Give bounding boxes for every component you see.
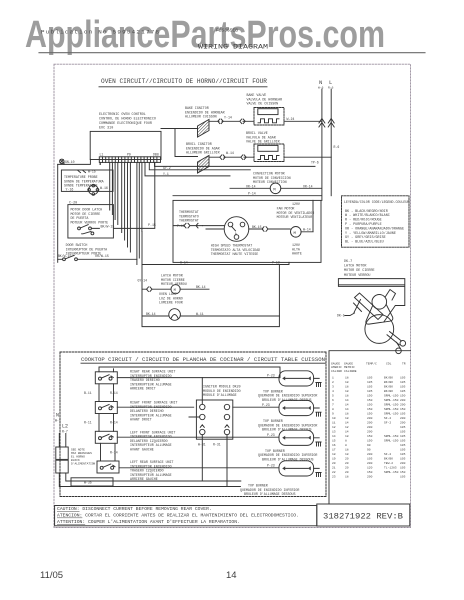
svg-text:OR-14: OR-14 — [246, 184, 256, 188]
latch motor aux labels — [161, 274, 187, 287]
svg-text:20: 20 — [332, 462, 336, 465]
svg-text:M: M — [294, 232, 297, 236]
svg-text:105: 105 — [367, 376, 373, 379]
wire label BK/W-15 door — [58, 254, 72, 258]
svg-text:P-23: P-23 — [267, 433, 275, 437]
wire label P-23 RF — [262, 403, 270, 407]
svg-text:150: 150 — [367, 399, 373, 402]
svg-text:105: 105 — [400, 435, 406, 438]
svg-text:CAUTION: DISCONNECT CURRENT BE: CAUTION: DISCONNECT CURRENT BEFORE REMOV… — [57, 506, 212, 512]
probe connector plug — [88, 184, 99, 195]
svg-text:ATENCION: CORTAR EL CORRIENTE: ATENCION: CORTAR EL CORRIENTE ANTES DE R… — [57, 513, 299, 519]
svg-text:BRULEUR D'ALLUMAGE DESSOUS: BRULEUR D'ALLUMAGE DESSOUS — [244, 492, 295, 496]
connector thermostat — [173, 223, 203, 228]
svg-text:COL: COL — [386, 363, 392, 366]
svg-text:R-14: R-14 — [110, 450, 118, 454]
wire label W-14 broil — [226, 151, 234, 155]
wire label W-14 fan — [303, 227, 311, 231]
svg-text:R-6: R-6 — [334, 145, 340, 149]
latch interlock labels — [71, 208, 109, 225]
svg-text:18: 18 — [345, 381, 349, 384]
surface switch S13 — [100, 464, 115, 469]
wire label P-23 LR — [267, 463, 275, 467]
svg-text:23: 23 — [332, 475, 336, 478]
wire label R-14 sw1 — [110, 391, 118, 395]
latch interlock switch S3 — [78, 225, 94, 235]
cooktop title — [81, 357, 325, 363]
svg-text:1: 1 — [332, 376, 334, 379]
svg-text:P-23: P-23 — [267, 463, 275, 467]
wire L arrow — [328, 119, 334, 128]
svg-text:MOTOR DE CIERRE: MOTOR DE CIERRE — [344, 269, 375, 273]
burner RF element — [279, 400, 314, 415]
svg-text:TP-6: TP-6 — [311, 161, 319, 165]
svg-text:200: 200 — [367, 475, 373, 478]
door switch S4 labels — [66, 243, 108, 256]
svg-text:318271922 REV:B: 318271922 REV:B — [323, 512, 403, 522]
svg-text:18: 18 — [345, 435, 349, 438]
svg-text:14: 14 — [345, 408, 349, 411]
svg-text:GY-14: GY-14 — [138, 279, 148, 283]
svg-text:P-23: P-23 — [262, 403, 270, 407]
svg-text:20: 20 — [345, 466, 349, 469]
caution text — [57, 506, 299, 525]
surface switch S13 box — [97, 461, 119, 473]
wire switch2 to junction block — [117, 407, 199, 417]
burner LF comb — [316, 442, 321, 446]
wire label BK-14 latch — [196, 285, 206, 289]
svg-text:TR: TR — [402, 363, 406, 366]
svg-text:18: 18 — [345, 394, 349, 397]
svg-text:BK/W-15: BK/W-15 — [58, 254, 72, 258]
burner LF element — [279, 430, 314, 445]
svg-text:ALLUMEUR CUISSON: ALLUMEUR CUISSON — [185, 115, 217, 119]
svg-text:M: M — [273, 188, 276, 192]
svg-text:L1: L1 — [100, 153, 104, 157]
wire N supply — [321, 89, 323, 200]
convection motor B1 — [270, 183, 281, 194]
svg-text:MODULE D'ALLUMAGE: MODULE D'ALLUMAGE — [203, 393, 237, 397]
legend color code box — [342, 196, 410, 247]
wire label P-23 RR — [267, 373, 275, 377]
svg-text:150: 150 — [400, 408, 406, 411]
footer page number — [226, 570, 237, 581]
svg-text:11: 11 — [332, 421, 336, 424]
latch assembly lever — [355, 293, 384, 320]
wire bake ignitor to valve — [209, 120, 254, 122]
svg-text:5: 5 — [332, 394, 334, 397]
surface switch S11 box — [95, 402, 117, 414]
wire convection motor — [230, 187, 321, 189]
svg-text:105: 105 — [400, 439, 406, 442]
svg-text:200: 200 — [400, 421, 406, 424]
svg-text:VALVE DE CUISSON: VALVE DE CUISSON — [247, 102, 279, 106]
node L label — [328, 79, 334, 90]
broil ignitor E2 — [198, 156, 210, 174]
svg-text:120: 120 — [367, 466, 373, 469]
burner RR comb — [316, 383, 321, 387]
latch hook label DK-7 — [337, 314, 345, 318]
svg-text:18: 18 — [345, 475, 349, 478]
bake valve A1 dashed box — [254, 108, 284, 126]
wire P-14 bus — [173, 195, 321, 197]
wire EOC to bake ignitor — [161, 129, 198, 157]
revision number — [323, 512, 403, 522]
svg-text:BK/BK: BK/BK — [384, 380, 393, 384]
svg-text:L: L — [329, 79, 332, 86]
svg-text:14: 14 — [226, 570, 237, 581]
svg-text:200: 200 — [367, 426, 373, 429]
svg-text:THERMOSTAT HAUTE VITESSE: THERMOSTAT HAUTE VITESSE — [211, 252, 259, 256]
svg-text:AMERIC: AMERIC — [331, 366, 342, 369]
svg-text:8: 8 — [345, 444, 347, 447]
svg-text:200: 200 — [367, 462, 373, 465]
svg-text:Publication No 5995421778: Publication No 5995421778 — [41, 29, 160, 36]
wire selector left — [203, 226, 225, 229]
latch motor B3 — [171, 285, 180, 294]
latch hook pointer — [345, 313, 355, 316]
svg-text:BK/BK: BK/BK — [384, 375, 393, 379]
svg-text:N: N — [319, 79, 322, 86]
svg-text:W-16: W-16 — [88, 170, 96, 174]
wire label W-24 — [287, 117, 295, 121]
svg-text:200: 200 — [367, 430, 373, 433]
footer date — [40, 570, 63, 581]
svg-text:14: 14 — [345, 399, 349, 402]
wire label GY-2 — [163, 166, 171, 176]
speed selector S5 — [224, 217, 249, 242]
wire broil ignitor to valve — [209, 156, 254, 158]
svg-text:DK-5: DK-5 — [337, 314, 345, 318]
svg-text:THERMOSTAT: THERMOSTAT — [179, 219, 199, 223]
wire label P-15 — [148, 223, 156, 227]
svg-text:150: 150 — [367, 403, 373, 406]
EOC U1 label — [99, 113, 156, 131]
burner RR element — [279, 371, 314, 386]
svg-text:105: 105 — [367, 385, 373, 388]
svg-text:BL - BLUE/AZUL/BLEU: BL - BLUE/AZUL/BLEU — [345, 240, 384, 245]
high speed labels — [211, 244, 260, 257]
svg-text:4: 4 — [332, 390, 334, 393]
svg-text:16: 16 — [332, 444, 336, 447]
svg-text:18: 18 — [345, 417, 349, 420]
svg-text:DK-7: DK-7 — [344, 260, 352, 264]
surface switch S12 — [99, 434, 114, 439]
svg-text:WIRING DIAGRAM: WIRING DIAGRAM — [198, 44, 268, 51]
svg-text:D'ALIMENTATION: D'ALIMENTATION — [71, 462, 96, 466]
svg-text:90: 90 — [367, 444, 371, 447]
op EOC control board U1 — [90, 131, 161, 159]
svg-text:105: 105 — [367, 390, 373, 393]
svg-text:P - PURPURA/PURPLE: P - PURPURA/PURPLE — [345, 222, 382, 227]
svg-text:R - RED/ROJO/ROUGE: R - RED/ROJO/ROUGE — [345, 218, 382, 223]
svg-text:7: 7 — [332, 403, 334, 406]
svg-text:R-31: R-31 — [213, 443, 221, 447]
latch assembly rod link — [397, 342, 401, 348]
svg-text:150: 150 — [367, 439, 373, 442]
wire table box — [329, 351, 411, 504]
svg-text:18: 18 — [345, 453, 349, 456]
oven section title — [101, 78, 267, 85]
svg-text:105: 105 — [400, 466, 406, 469]
svg-text:AVANT DROIT: AVANT DROIT — [130, 418, 152, 422]
temperature probe RT1 box — [61, 170, 113, 191]
broil valve coil box — [258, 145, 278, 151]
junction block terminals — [200, 404, 230, 434]
caution box — [55, 506, 317, 526]
svg-text:105: 105 — [400, 444, 406, 447]
broil valve labels — [246, 131, 280, 144]
wire label BK-15 — [252, 225, 262, 229]
svg-text:105: 105 — [400, 430, 406, 433]
svg-text:17: 17 — [332, 448, 336, 451]
svg-text:COMMANDE ELECTRONIQUE FOUR: COMMANDE ELECTRONIQUE FOUR — [99, 122, 152, 126]
svg-text:105: 105 — [367, 457, 373, 460]
svg-text:ARRIERE DROIT: ARRIERE DROIT — [130, 387, 156, 391]
svg-text:90: 90 — [367, 448, 371, 451]
svg-text:11/05: 11/05 — [40, 570, 63, 581]
burner LR labels — [240, 484, 299, 497]
latch assembly labels — [344, 260, 375, 278]
wire fan motor right — [301, 200, 313, 231]
svg-text:OR-14: OR-14 — [303, 184, 313, 188]
svg-text:SRML-150: SRML-150 — [384, 471, 399, 474]
wire table header — [331, 362, 406, 373]
svg-text:105: 105 — [367, 381, 373, 384]
node N label — [318, 79, 324, 90]
svg-text:105: 105 — [400, 448, 406, 451]
wire label P-14 — [248, 192, 256, 196]
svg-text:ATTENTION: COUPER L'ALIMENTATI: ATTENTION: COUPER L'ALIMENTATION AVANT D… — [57, 519, 240, 525]
fan motor B2 — [291, 227, 302, 238]
header rule — [39, 52, 425, 54]
svg-text:105: 105 — [400, 385, 406, 388]
convection motor labels — [253, 172, 291, 185]
surface switch S10 — [99, 375, 114, 380]
connector fan wire — [262, 227, 268, 232]
svg-text:BRULEUR D'ALLUMAGE DESSUS: BRULEUR D'ALLUMAGE DESSUS — [262, 398, 311, 402]
svg-text:20: 20 — [345, 462, 349, 465]
wire lamp bus top — [142, 262, 289, 264]
bake valve labels — [247, 93, 283, 106]
svg-text:CONTROL DE HORNO ELECTRONICO: CONTROL DE HORNO ELECTRONICO — [99, 118, 156, 122]
cooktop section boundary — [60, 352, 326, 497]
latch assembly bracket — [338, 279, 404, 322]
svg-text:105: 105 — [400, 426, 406, 429]
svg-text:GY-2: GY-2 — [163, 166, 171, 170]
wire table rows — [332, 375, 406, 478]
svg-text:18: 18 — [345, 448, 349, 451]
left section box — [57, 164, 59, 262]
probe connector C-< — [78, 171, 86, 173]
svg-text:MOTEUR VERROU: MOTEUR VERROU — [344, 274, 370, 278]
svg-text:18: 18 — [345, 390, 349, 393]
surface switch S11 labels — [130, 401, 178, 422]
svg-text:105: 105 — [400, 376, 406, 379]
svg-text:8: 8 — [345, 439, 347, 442]
wire label P-15 inner — [177, 224, 185, 228]
latch motor interlock text box — [68, 205, 114, 238]
surface switch S10 labels — [130, 370, 176, 391]
svg-text:12: 12 — [332, 426, 336, 429]
svg-text:OVEN CIRCUIT//CIRCUITO DE HORN: OVEN CIRCUIT//CIRCUITO DE HORNO//CIRCUIT… — [101, 78, 267, 85]
svg-text:BK/BK: BK/BK — [384, 389, 393, 393]
wire latch switch to P-15 — [91, 162, 154, 228]
svg-text:FES365EB: FES365EB — [216, 28, 238, 34]
svg-text:200: 200 — [367, 453, 373, 456]
EOC pin labels L1 P9 DB8 — [100, 153, 159, 157]
svg-text:150: 150 — [367, 412, 373, 415]
svg-text:MOTEUR VENTILATEUR: MOTEUR VENTILATEUR — [277, 215, 313, 219]
svg-text:18: 18 — [345, 412, 349, 415]
wire cooktop bottom bus — [59, 473, 241, 487]
svg-text:105: 105 — [400, 390, 406, 393]
svg-text:SF-2: SF-2 — [384, 421, 391, 424]
EOC drop bends — [145, 163, 315, 176]
svg-text:W-24: W-24 — [287, 117, 295, 121]
wire N arrow — [319, 119, 325, 128]
svg-text:CALIBR: CALIBR — [331, 370, 342, 373]
burner RF comb — [316, 412, 321, 416]
bus label W-36 — [84, 481, 92, 485]
EOC drop wires bundle — [100, 163, 142, 265]
svg-text:18: 18 — [345, 376, 349, 379]
svg-text:BK/BK: BK/BK — [384, 384, 393, 388]
svg-text:COOKTOP CIRCUIT / CIRCUITO DE: COOKTOP CIRCUIT / CIRCUITO DE PLANCHA DE… — [81, 357, 325, 363]
svg-text:METRIC: METRIC — [344, 366, 355, 369]
wire label W-16 top — [88, 170, 96, 174]
legend entries — [345, 209, 404, 245]
burner LR comb — [316, 473, 321, 477]
svg-text:AVANT GAUCHE: AVANT GAUCHE — [130, 448, 154, 452]
svg-text:200: 200 — [400, 403, 406, 406]
terminal block TB2 — [56, 460, 68, 473]
EOC terminal strip — [99, 157, 160, 163]
wire label B-11 — [84, 391, 92, 395]
wire latch motor — [142, 288, 209, 290]
ground GN-10 — [60, 159, 75, 164]
bake valve coil box — [258, 109, 278, 115]
junction block wire labels — [198, 443, 221, 447]
svg-text:OR - ORANGE/ANARANJADO/ORANGE: OR - ORANGE/ANARANJADO/ORANGE — [345, 226, 404, 231]
surface switch S10 box — [95, 372, 117, 384]
svg-text:GN-10: GN-10 — [65, 160, 75, 164]
wire lamp enclosure — [142, 232, 279, 327]
latch assembly rod — [387, 332, 402, 345]
wire label TP-6 — [311, 161, 319, 165]
wire label W-14 lamp bus — [180, 260, 188, 264]
wire label P-23 LF — [267, 433, 275, 437]
svg-text:W-11: W-11 — [196, 312, 204, 316]
connector pair bake — [218, 119, 245, 124]
svg-text:200: 200 — [400, 399, 406, 402]
wire label W-11 lamp — [196, 312, 204, 316]
svg-text:13: 13 — [332, 430, 336, 433]
broil ignitor labels — [186, 142, 220, 155]
svg-text:W-14: W-14 — [303, 227, 311, 231]
burner LF labels — [258, 449, 317, 462]
wire selector to fan — [249, 228, 290, 230]
surface switch S11 — [99, 405, 114, 410]
wire label BK/W-15 — [101, 225, 115, 229]
svg-text:12: 12 — [345, 426, 349, 429]
svg-text:14: 14 — [332, 435, 336, 438]
svg-text:105: 105 — [400, 457, 406, 460]
svg-text:ALLUMEUR GRILLOIR: ALLUMEUR GRILLOIR — [186, 151, 220, 155]
svg-text:SF-2: SF-2 — [384, 453, 391, 456]
svg-text:150: 150 — [367, 471, 373, 474]
surface switch S12 box — [95, 431, 117, 443]
svg-text:SRML-150: SRML-150 — [384, 394, 399, 397]
svg-text:R-11: R-11 — [84, 421, 92, 425]
svg-text:SRML-150: SRML-150 — [384, 408, 399, 411]
svg-text:10: 10 — [332, 417, 336, 420]
svg-text:R-7: R-7 — [62, 430, 68, 434]
svg-text:ELECTRONIC OVEN CONTROL: ELECTRONIC OVEN CONTROL — [99, 113, 146, 117]
svg-text:19: 19 — [332, 457, 336, 460]
temperature probe RT1 labels — [64, 175, 108, 191]
fan motor labels — [277, 202, 315, 219]
svg-text:105: 105 — [400, 381, 406, 384]
svg-text:W-16: W-16 — [100, 186, 108, 190]
svg-text:150: 150 — [400, 394, 406, 397]
svg-text:W-36: W-36 — [84, 481, 92, 485]
svg-text:150: 150 — [367, 408, 373, 411]
svg-text:200: 200 — [400, 417, 406, 420]
svg-text:200: 200 — [367, 417, 373, 420]
svg-text:P-23: P-23 — [267, 373, 275, 377]
node C-20 label — [69, 202, 77, 206]
svg-text:BK/W-15: BK/W-15 — [101, 225, 115, 229]
junction block labels — [203, 385, 241, 398]
svg-text:105: 105 — [400, 475, 406, 478]
svg-text:120V: 120V — [292, 202, 300, 206]
wire label R-14 sw3 — [110, 450, 118, 454]
svg-text:HAUTE: HAUTE — [292, 252, 302, 256]
svg-text:B-11: B-11 — [84, 391, 92, 395]
wire ground bus — [58, 159, 91, 164]
wire door switch riser — [101, 258, 136, 260]
svg-text:105: 105 — [400, 453, 406, 456]
oven title underline — [99, 86, 267, 88]
broil valve A2 dashed box — [254, 144, 284, 162]
connector latch motor — [147, 287, 153, 292]
surface switch S12 labels — [130, 430, 176, 451]
latch assembly cam head — [372, 295, 387, 310]
svg-text:W-6: W-6 — [318, 87, 324, 90]
terminal block TB1 — [56, 447, 68, 459]
wire ground stub — [64, 161, 100, 164]
svg-text:P-15: P-15 — [148, 223, 156, 227]
wire L supply — [330, 89, 332, 196]
wire burner RF — [233, 406, 319, 409]
thermostat labels — [179, 210, 199, 223]
burner LR element — [279, 461, 314, 476]
wire burner LR — [119, 467, 319, 470]
svg-text:LEYENDA/COLOR CODE/LEGEND-COUL: LEYENDA/COLOR CODE/LEGEND-COULEUR — [344, 200, 409, 204]
svg-text:Y-16: Y-16 — [66, 187, 74, 191]
svg-text:SRML-150: SRML-150 — [384, 403, 399, 406]
cooktop node N — [55, 413, 61, 423]
svg-text:MOTEUR CONVECTION: MOTEUR CONVECTION — [253, 180, 287, 184]
svg-text:9: 9 — [332, 412, 334, 415]
connector pair broil — [220, 155, 246, 160]
svg-text:W-7: W-7 — [55, 419, 61, 423]
revision box — [317, 504, 410, 526]
svg-text:P-13: P-13 — [272, 260, 280, 264]
wire label R-6 — [334, 145, 340, 149]
svg-text:150: 150 — [400, 471, 406, 474]
